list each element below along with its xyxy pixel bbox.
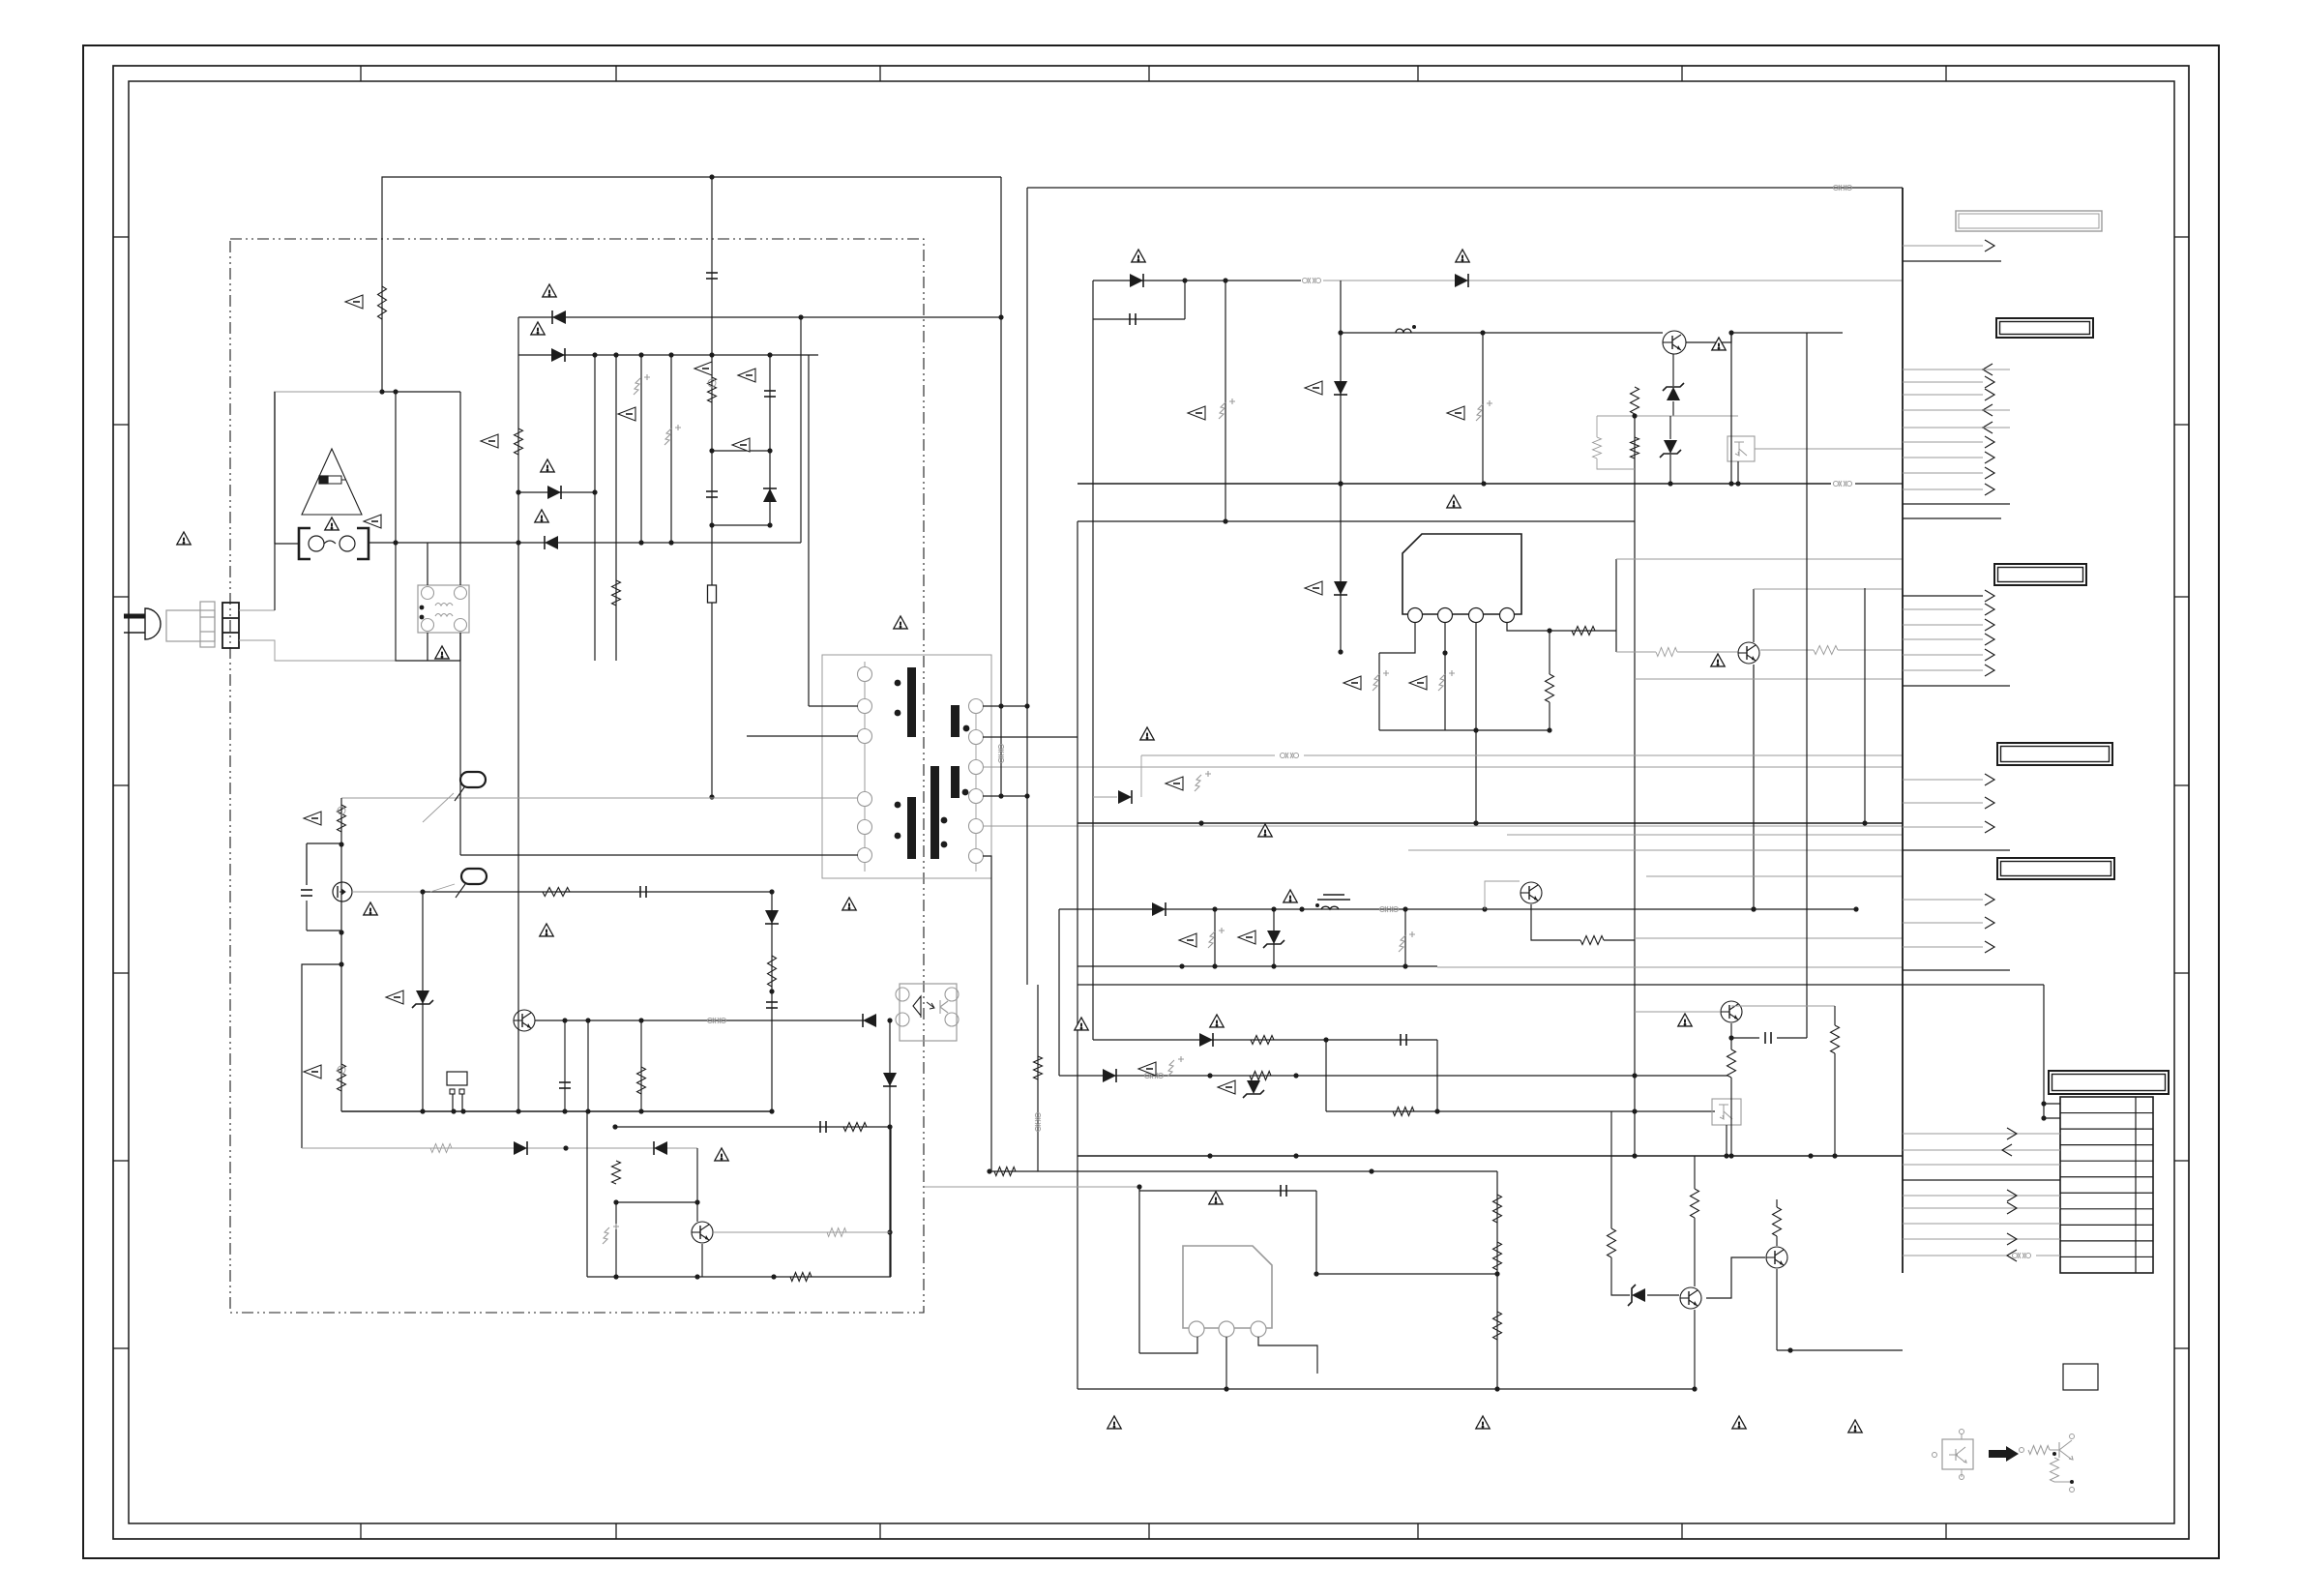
zener D — [412, 990, 433, 1008]
wire — [1730, 1023, 1732, 1049]
wire — [587, 1020, 589, 1111]
wire break — [1379, 906, 1398, 912]
wire — [1616, 558, 1903, 560]
node junction — [1724, 1153, 1728, 1158]
wire — [460, 854, 858, 856]
diode D — [1455, 274, 1468, 287]
node junction — [987, 1168, 991, 1173]
wire break — [1035, 1112, 1041, 1131]
secondary ground bus — [1078, 1155, 1903, 1157]
optocoupler PC3 — [1712, 1099, 1741, 1125]
wire — [1596, 416, 1598, 437]
wire — [1092, 281, 1094, 1040]
wire — [1444, 622, 1446, 730]
note pointer — [1343, 676, 1361, 690]
resistor R — [1656, 648, 1677, 657]
node junction — [516, 1108, 520, 1113]
resistor R (fusible) — [338, 805, 346, 832]
polarized cap marker — [634, 374, 650, 395]
warning triangle — [1209, 1192, 1223, 1204]
wire — [1323, 280, 1903, 281]
transistor Q5 — [1738, 642, 1759, 664]
node junction — [1299, 906, 1304, 911]
line filter windings — [420, 587, 467, 632]
node junction — [694, 1274, 699, 1279]
node junction — [420, 1108, 425, 1113]
wire — [1647, 1294, 1679, 1296]
warning triangle — [364, 902, 377, 915]
signal arrows group D — [1903, 894, 1994, 953]
wire — [1485, 881, 1520, 909]
note pointer — [364, 515, 381, 528]
note pointer — [1409, 676, 1427, 690]
node junction — [1547, 628, 1551, 633]
note pointer — [694, 362, 712, 375]
node junction — [451, 1108, 456, 1113]
note pointer — [1305, 581, 1322, 595]
resistor R — [1593, 437, 1602, 458]
wire — [808, 355, 810, 706]
wire — [587, 1276, 891, 1278]
wire — [1138, 1187, 1140, 1353]
node junction — [1323, 1037, 1328, 1042]
wire — [983, 825, 1903, 827]
node junction — [1198, 820, 1203, 825]
resistor R (fusible) — [338, 1064, 346, 1091]
warning triangle — [543, 284, 556, 297]
wire — [1864, 588, 1866, 823]
wire — [1611, 1257, 1630, 1295]
wire — [1677, 651, 1738, 653]
node junction — [1224, 1386, 1228, 1391]
arrow — [1985, 240, 1994, 251]
wire — [1037, 985, 1039, 1171]
note pointer — [1138, 1062, 1156, 1076]
wire — [1834, 1053, 1836, 1156]
transistor Q7 — [1721, 1001, 1742, 1022]
capacitor C — [640, 886, 646, 898]
wire — [1669, 455, 1671, 484]
resistor R — [1691, 1189, 1699, 1218]
wire — [1141, 754, 1275, 756]
wire — [989, 1170, 1497, 1172]
wire — [1730, 1078, 1732, 1156]
wire — [711, 177, 713, 355]
transistor Q8 — [1680, 1287, 1701, 1309]
node junction — [612, 1124, 617, 1129]
wire — [459, 633, 461, 661]
resistor R — [543, 888, 570, 897]
wire — [983, 766, 1903, 768]
wire — [1093, 280, 1301, 281]
node junction — [767, 522, 772, 527]
wire — [341, 797, 858, 799]
node junction — [771, 1274, 776, 1279]
wire — [594, 355, 596, 661]
wire — [1669, 416, 1671, 439]
wire — [1615, 559, 1617, 652]
node junction — [1728, 1153, 1733, 1158]
wire — [1903, 245, 1983, 247]
capacitor C — [559, 1082, 571, 1088]
node junction — [516, 540, 520, 545]
wire — [1026, 188, 1028, 985]
capacitor C — [1130, 313, 1136, 325]
AC plug body — [166, 610, 215, 641]
wire — [1475, 622, 1477, 823]
wire — [1753, 665, 1755, 909]
wire — [586, 1111, 588, 1277]
gate network bracket — [306, 843, 308, 931]
wire — [1059, 1075, 1727, 1077]
node junction — [709, 352, 714, 357]
wire — [1140, 755, 1142, 797]
node junction — [1434, 1108, 1439, 1113]
wire — [1258, 1337, 1317, 1374]
wire — [1777, 1037, 1807, 1039]
wire — [302, 1147, 697, 1149]
wire break — [707, 1018, 725, 1023]
wire — [1855, 483, 1903, 485]
node junction — [420, 889, 425, 894]
warning triangle — [1132, 250, 1145, 262]
diode D — [1152, 902, 1166, 916]
wire — [1694, 1218, 1696, 1286]
wire — [1754, 588, 1903, 590]
diode D — [545, 536, 558, 549]
legend boxed transistor — [1933, 1430, 1974, 1480]
wire — [1378, 653, 1380, 730]
wire — [1903, 969, 2010, 971]
node junction — [798, 314, 803, 319]
transformer phase dots — [895, 680, 970, 848]
wire — [771, 892, 773, 1111]
wire — [769, 355, 771, 525]
node junction — [1481, 481, 1486, 486]
resistor R — [1572, 627, 1595, 635]
pin ladder signal rows — [1903, 1128, 2060, 1245]
wire — [1139, 1190, 1316, 1192]
fuse F1 (bracketed) — [299, 528, 369, 559]
wire — [1597, 415, 1738, 417]
node junction — [769, 889, 774, 894]
main secondary bus — [1078, 483, 1831, 485]
resistor R — [1580, 936, 1604, 945]
resistor R — [1034, 1056, 1043, 1079]
wire — [1549, 631, 1550, 674]
wire — [855, 797, 865, 799]
capacitor C — [706, 491, 718, 497]
node junction — [709, 174, 714, 179]
warning triangle — [894, 616, 907, 629]
node junction — [1369, 1168, 1373, 1173]
wire — [1610, 1111, 1612, 1228]
wire — [714, 1231, 891, 1233]
wire — [564, 1020, 566, 1111]
node junction — [769, 1108, 774, 1113]
warning triangle — [535, 510, 548, 522]
wire — [1737, 461, 1739, 484]
wire — [1730, 333, 1732, 484]
wire — [983, 795, 1027, 797]
node junction — [1480, 330, 1485, 335]
arrow — [2007, 1250, 2017, 1261]
node junction — [1024, 703, 1029, 708]
wire — [983, 736, 1078, 738]
wire — [2036, 1255, 2060, 1256]
node junction — [887, 1229, 892, 1234]
resistor R — [515, 429, 523, 455]
node junction — [1728, 1035, 1733, 1040]
resistor R — [1250, 1072, 1271, 1080]
node junction — [1751, 906, 1756, 911]
wire — [1726, 1125, 1727, 1156]
resistor R — [1831, 1025, 1840, 1053]
wire — [302, 964, 341, 1148]
node junction — [562, 1108, 567, 1113]
transformer T1 core bars — [907, 667, 960, 859]
note pointer — [481, 434, 498, 448]
wire break — [1833, 481, 1851, 487]
wire — [1507, 622, 1616, 631]
IC U2 (regulator) — [1183, 1246, 1272, 1328]
warning triangle — [435, 646, 449, 659]
node junction — [1735, 481, 1740, 486]
wire — [382, 177, 1001, 392]
node junction — [998, 703, 1003, 708]
resistor R — [1631, 437, 1639, 458]
node junction — [2041, 1101, 2046, 1106]
capacitor C — [820, 1121, 826, 1133]
wire — [1436, 1040, 1438, 1111]
diode D — [1334, 381, 1347, 395]
zener D — [1660, 440, 1681, 458]
connector label box — [1997, 743, 2112, 765]
wire — [1531, 904, 1580, 940]
node junction — [1207, 1073, 1212, 1078]
node junction — [592, 352, 597, 357]
resistor R — [1493, 1195, 1502, 1223]
long rail — [1078, 984, 2044, 986]
wire — [1903, 685, 2010, 687]
wire — [1326, 1110, 1715, 1112]
legend arrow — [1989, 1446, 2019, 1462]
primary ground bus — [341, 1110, 774, 1112]
wire — [382, 391, 460, 393]
node junction — [1728, 481, 1733, 486]
warning triangle — [325, 517, 339, 530]
wire — [1834, 1006, 1836, 1025]
wire — [1903, 260, 2001, 262]
wire — [1078, 965, 1437, 967]
wire — [274, 392, 276, 610]
node junction — [1494, 1386, 1499, 1391]
connector CN1 (3-cell) — [222, 603, 239, 648]
wire break — [1833, 185, 1851, 191]
resistor R — [1393, 1108, 1414, 1116]
node junction — [1137, 1184, 1141, 1189]
wire — [1496, 1171, 1498, 1389]
node junction — [1402, 963, 1407, 968]
oscilloscope flag — [455, 772, 486, 801]
node junction — [769, 989, 774, 993]
wire — [1549, 702, 1550, 730]
diode D — [763, 488, 777, 502]
wire — [1225, 281, 1226, 521]
node junction — [998, 793, 1003, 798]
note pointer — [1238, 931, 1255, 944]
node junction — [1547, 727, 1551, 732]
resistor R — [1814, 646, 1838, 655]
node junction — [339, 930, 343, 934]
node junction — [1473, 820, 1478, 825]
node junction — [1338, 481, 1343, 486]
node junction — [1182, 278, 1187, 282]
wire — [1731, 1005, 1835, 1007]
wire — [1077, 521, 1078, 1389]
node junction — [339, 961, 343, 966]
border zone tick marks top/bottom — [361, 66, 1946, 1539]
wire — [1646, 875, 1903, 877]
wire — [422, 892, 424, 1111]
connector housing (gray 3-cell) — [200, 602, 215, 647]
wire — [1000, 177, 1002, 796]
node junction — [638, 540, 643, 545]
resistor R — [1608, 1228, 1616, 1257]
polarized cap marker — [1219, 399, 1235, 419]
polarized cap marker — [1195, 771, 1211, 791]
resistor R — [768, 956, 777, 987]
wire — [1093, 796, 1117, 798]
node junction — [1212, 963, 1217, 968]
node junction — [638, 352, 643, 357]
IC U1 — [1402, 534, 1521, 614]
node junction — [1728, 330, 1733, 335]
note pointer — [345, 295, 363, 309]
wire — [352, 891, 423, 893]
node junction — [1751, 906, 1756, 911]
node junction — [1179, 963, 1184, 968]
node junction — [767, 352, 772, 357]
resistor R — [1493, 1242, 1502, 1270]
resistor R — [1773, 1207, 1782, 1236]
node junction — [1338, 330, 1343, 335]
node junction — [1473, 820, 1478, 825]
wire — [890, 1127, 892, 1277]
transistor Q3 — [692, 1222, 713, 1243]
connector label box — [1994, 564, 2086, 585]
node junction — [585, 1018, 590, 1022]
wire — [1903, 849, 2010, 851]
wire — [395, 392, 397, 543]
transistor Q6 — [1521, 882, 1542, 903]
wire — [1777, 1349, 1903, 1351]
resistor R — [790, 1273, 812, 1282]
wire — [396, 543, 460, 661]
wire — [1507, 834, 1903, 836]
note pointer — [618, 407, 635, 421]
wire — [274, 391, 382, 393]
signal arrows group A — [1903, 364, 2010, 495]
right collector bus — [1902, 188, 1904, 1273]
resistor R — [612, 580, 621, 606]
warning triangle — [1732, 1416, 1746, 1429]
resistor R — [378, 286, 387, 319]
node junction — [638, 1108, 643, 1113]
node junction — [1808, 1153, 1813, 1158]
resistor R — [1631, 387, 1639, 414]
node junction — [1293, 1153, 1298, 1158]
node junction — [1223, 518, 1227, 523]
wire — [427, 633, 428, 661]
node junction — [1271, 906, 1276, 911]
wire — [1806, 333, 1808, 1038]
warning triangle — [531, 322, 545, 335]
wire break — [2012, 1253, 2030, 1258]
line filter LF1 body — [418, 585, 469, 633]
wire — [1694, 1310, 1696, 1389]
wire — [701, 1244, 703, 1277]
node junction — [709, 522, 714, 527]
node junction — [1482, 906, 1487, 911]
wire — [1379, 729, 1550, 731]
AC plug P1 — [124, 608, 161, 639]
wire — [1672, 354, 1674, 386]
node junction — [393, 389, 398, 394]
wire — [459, 633, 461, 855]
warning triangle — [1258, 824, 1272, 837]
wire — [1776, 1236, 1778, 1246]
wire — [1604, 939, 1635, 941]
node junction — [694, 1199, 699, 1204]
resistor R — [708, 377, 717, 402]
wire — [1273, 909, 1275, 966]
wire — [924, 1186, 1139, 1188]
diode D — [552, 310, 566, 324]
wire — [1838, 649, 1903, 651]
wire — [340, 798, 342, 1111]
capacitor C — [1401, 1034, 1406, 1046]
zener D — [1628, 1285, 1645, 1306]
node junction — [668, 540, 673, 545]
wire — [1753, 589, 1755, 642]
diode D — [883, 1073, 897, 1086]
zener D — [1663, 383, 1684, 400]
wire — [1597, 458, 1635, 469]
wire — [1225, 1337, 1227, 1389]
warning triangle — [1456, 250, 1469, 262]
wire — [1694, 1156, 1696, 1189]
IC U1 pins — [1408, 608, 1515, 623]
inductor L — [1396, 325, 1416, 333]
wire — [1686, 333, 1843, 342]
node junction — [638, 1018, 643, 1022]
diode D — [654, 1141, 667, 1155]
diode D — [1199, 1033, 1213, 1047]
resistor R — [612, 1161, 621, 1184]
note pointer — [304, 1065, 321, 1079]
wire — [369, 542, 801, 544]
node junction — [1668, 481, 1672, 486]
wire — [1027, 187, 1903, 189]
transformer T1 outline — [822, 655, 991, 878]
wire — [307, 930, 341, 931]
transistor Q4 — [1663, 331, 1686, 354]
capacitor C — [706, 273, 718, 279]
wire — [712, 524, 770, 526]
wire — [696, 1202, 698, 1222]
resistor R — [1251, 1036, 1274, 1045]
